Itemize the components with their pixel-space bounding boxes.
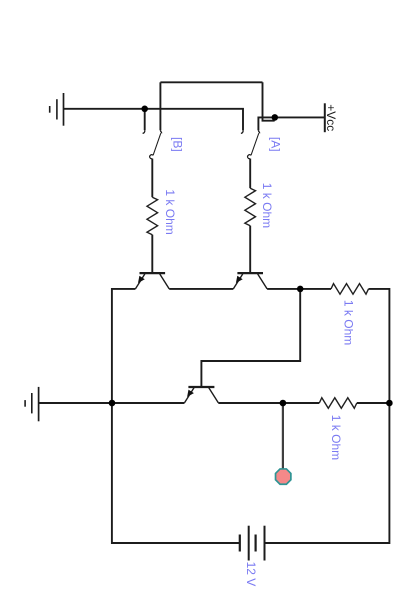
svg-text:[A]: [A]	[269, 137, 283, 152]
svg-text:[B]: [B]	[171, 137, 185, 152]
svg-text:1 k Ohm: 1 k Ohm	[260, 183, 274, 228]
svg-text:+Vcc: +Vcc	[324, 104, 338, 131]
svg-text:12 V: 12 V	[244, 562, 258, 587]
svg-text:1 k Ohm: 1 k Ohm	[329, 415, 343, 460]
svg-text:1 k Ohm: 1 k Ohm	[342, 300, 356, 345]
svg-text:1 k Ohm: 1 k Ohm	[163, 189, 177, 234]
